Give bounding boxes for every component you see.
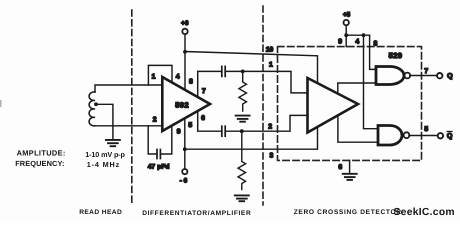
svg-text:7: 7 xyxy=(202,88,206,95)
output terminal Q xyxy=(437,73,442,78)
supply terminal +6 xyxy=(182,29,187,34)
overbar for Qbar xyxy=(447,131,452,133)
svg-text:+6: +6 xyxy=(181,20,189,27)
NAND gate G1 (upper) xyxy=(376,67,404,85)
wire C2 to node A xyxy=(225,70,243,72)
NAND gate G2 (lower) xyxy=(378,126,402,146)
section divider dashed line 1 (read head / differentiator) xyxy=(131,10,133,205)
svg-text:5: 5 xyxy=(424,126,428,133)
svg-text:529: 529 xyxy=(389,51,403,60)
wire center tap to ground xyxy=(96,104,113,140)
wire pin 8 down to upper gate input xyxy=(370,35,376,69)
svg-text:592: 592 xyxy=(175,101,189,110)
wire 592 pin 7 output up xyxy=(198,71,222,97)
svg-text:1: 1 xyxy=(269,61,273,68)
wire node A to comparator pin 1 staircase xyxy=(243,71,308,93)
svg-text:Q: Q xyxy=(447,132,453,140)
node coil center tap xyxy=(94,102,98,106)
svg-text:8: 8 xyxy=(374,40,378,47)
ground (R2) xyxy=(235,195,249,201)
supply terminal +5 xyxy=(344,20,349,25)
ground (R1) xyxy=(236,116,250,122)
wire coil top to pin 1 of 592 xyxy=(95,85,162,92)
capacitor C2 coupling plates xyxy=(222,66,225,76)
output terminal Qbar xyxy=(438,133,443,138)
svg-text:2: 2 xyxy=(268,123,272,130)
svg-text:6: 6 xyxy=(338,164,342,171)
node B junction xyxy=(240,129,244,133)
edge smudge xyxy=(0,100,2,107)
comparator U2 triangle xyxy=(308,78,359,133)
svg-text:1: 1 xyxy=(152,73,156,80)
wire node B to comparator pin 2 staircase xyxy=(242,115,308,131)
node A junction xyxy=(241,70,245,74)
wire +6 rail to comparator pin 10 xyxy=(185,52,318,84)
svg-text:6: 6 xyxy=(201,115,205,122)
svg-text:10: 10 xyxy=(266,47,274,54)
supply terminal -6 xyxy=(182,169,187,174)
wire C3 to node B xyxy=(225,130,242,132)
resistor R1 xyxy=(239,71,247,111)
node pin4 branch junction xyxy=(362,33,366,37)
wire pin1-pin4 compensation loop xyxy=(148,65,172,85)
ground (529 pin 6) xyxy=(343,174,357,180)
svg-text:READ HEAD: READ HEAD xyxy=(79,209,122,216)
op-amp U1 592 triangle xyxy=(162,77,210,131)
wire coil bottom to pin 2 of 592 xyxy=(95,125,162,127)
wire 592 pin 5 down to -6 xyxy=(184,118,186,169)
wire pin 4 down to lower gate input xyxy=(364,35,379,129)
svg-text:FREQUENCY:: FREQUENCY: xyxy=(15,159,64,168)
node -6 / pin3 junction xyxy=(183,147,187,151)
wire -6 junction to comparator pin 3 xyxy=(185,127,318,149)
wire G2 output to Qbar terminal xyxy=(409,135,438,137)
capacitor C3 coupling plates xyxy=(222,126,225,136)
section divider dashed line 2 (differentiator / zero crossing detector) xyxy=(262,6,264,205)
svg-text:4: 4 xyxy=(355,39,359,46)
svg-text:- 6: - 6 xyxy=(180,178,188,185)
read head coil L1 xyxy=(89,92,95,126)
ground (read head center tap) xyxy=(106,140,120,146)
svg-text:1-10 mV p-p: 1-10 mV p-p xyxy=(85,150,125,159)
svg-text:4: 4 xyxy=(176,74,180,81)
NAND G1 output bubble xyxy=(404,73,410,79)
dashed box zero crossing detector IC xyxy=(278,47,422,161)
wire comparator bottom output to lower gate xyxy=(338,115,378,142)
wire +6 junction down to pin 8 (top edge of 592) xyxy=(184,52,186,90)
svg-text:3: 3 xyxy=(270,152,274,159)
wire +5 rail right xyxy=(346,34,369,36)
svg-text:SeekIC.com: SeekIC.com xyxy=(394,207,455,218)
wire pin 9 strobe down to box edge xyxy=(345,35,347,46)
svg-text:7: 7 xyxy=(424,68,428,75)
svg-text:1-4 MHz: 1-4 MHz xyxy=(87,160,120,169)
svg-text:9: 9 xyxy=(177,128,181,135)
svg-text:Q: Q xyxy=(447,72,453,80)
wire G1 output to Q terminal xyxy=(410,75,437,77)
svg-text:ZERO CROSSING DETECTOR: ZERO CROSSING DETECTOR xyxy=(294,209,402,216)
svg-text:5: 5 xyxy=(188,122,192,129)
capacitor C1 47 pFd plates xyxy=(157,150,160,159)
svg-text:AMPLITUDE:: AMPLITUDE: xyxy=(17,149,66,158)
wire +5 down to junction xyxy=(345,25,347,35)
node +6 rail junction xyxy=(183,50,187,54)
svg-text:47 pFd: 47 pFd xyxy=(148,164,170,171)
wire +6 terminal down to junction xyxy=(184,34,186,51)
svg-text:8: 8 xyxy=(189,78,193,85)
svg-text:+5: +5 xyxy=(343,11,351,18)
resistor R2 xyxy=(238,131,246,189)
wire pin 6 ground stub xyxy=(349,160,351,173)
node +5 junction xyxy=(344,33,348,37)
svg-text:2: 2 xyxy=(153,116,157,123)
svg-text:DIFFERENTIATOR/AMPLIFIER: DIFFERENTIATOR/AMPLIFIER xyxy=(142,210,251,217)
wire comparator top output to upper gate xyxy=(338,83,376,94)
wire 592 pin 6 output down xyxy=(198,111,222,131)
wire C1 right plate to pin 9 xyxy=(160,126,171,154)
NAND G2 output bubble xyxy=(404,132,410,138)
svg-text:9: 9 xyxy=(338,38,342,45)
capacitor C1 47pFd left branch wire xyxy=(148,126,157,154)
